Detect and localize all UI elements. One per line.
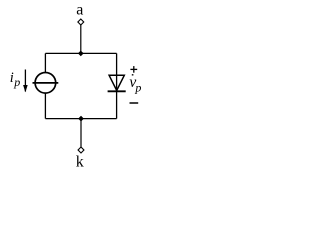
svg-text:a: a — [76, 2, 83, 19]
svg-text:p: p — [134, 80, 141, 94]
junction node bottom (filled diamond) — [79, 116, 84, 121]
svg-text:k: k — [76, 153, 84, 170]
wire left — [44, 53, 46, 118]
diode D1 — [108, 75, 126, 91]
wire a stub — [80, 25, 82, 53]
svg-text:p: p — [13, 75, 20, 89]
current source I1 (circle with bar) — [33, 73, 59, 94]
terminal k (open diamond) — [78, 147, 84, 153]
wire bottom — [45, 118, 116, 120]
plus sign — [130, 66, 137, 76]
wire k stub — [80, 119, 82, 147]
terminal a (open diamond) — [78, 19, 84, 25]
wire top — [45, 52, 116, 54]
wire right — [116, 53, 118, 118]
minus sign — [130, 102, 139, 104]
current arrow ip — [23, 70, 28, 93]
junction node top (filled diamond) — [79, 51, 84, 56]
